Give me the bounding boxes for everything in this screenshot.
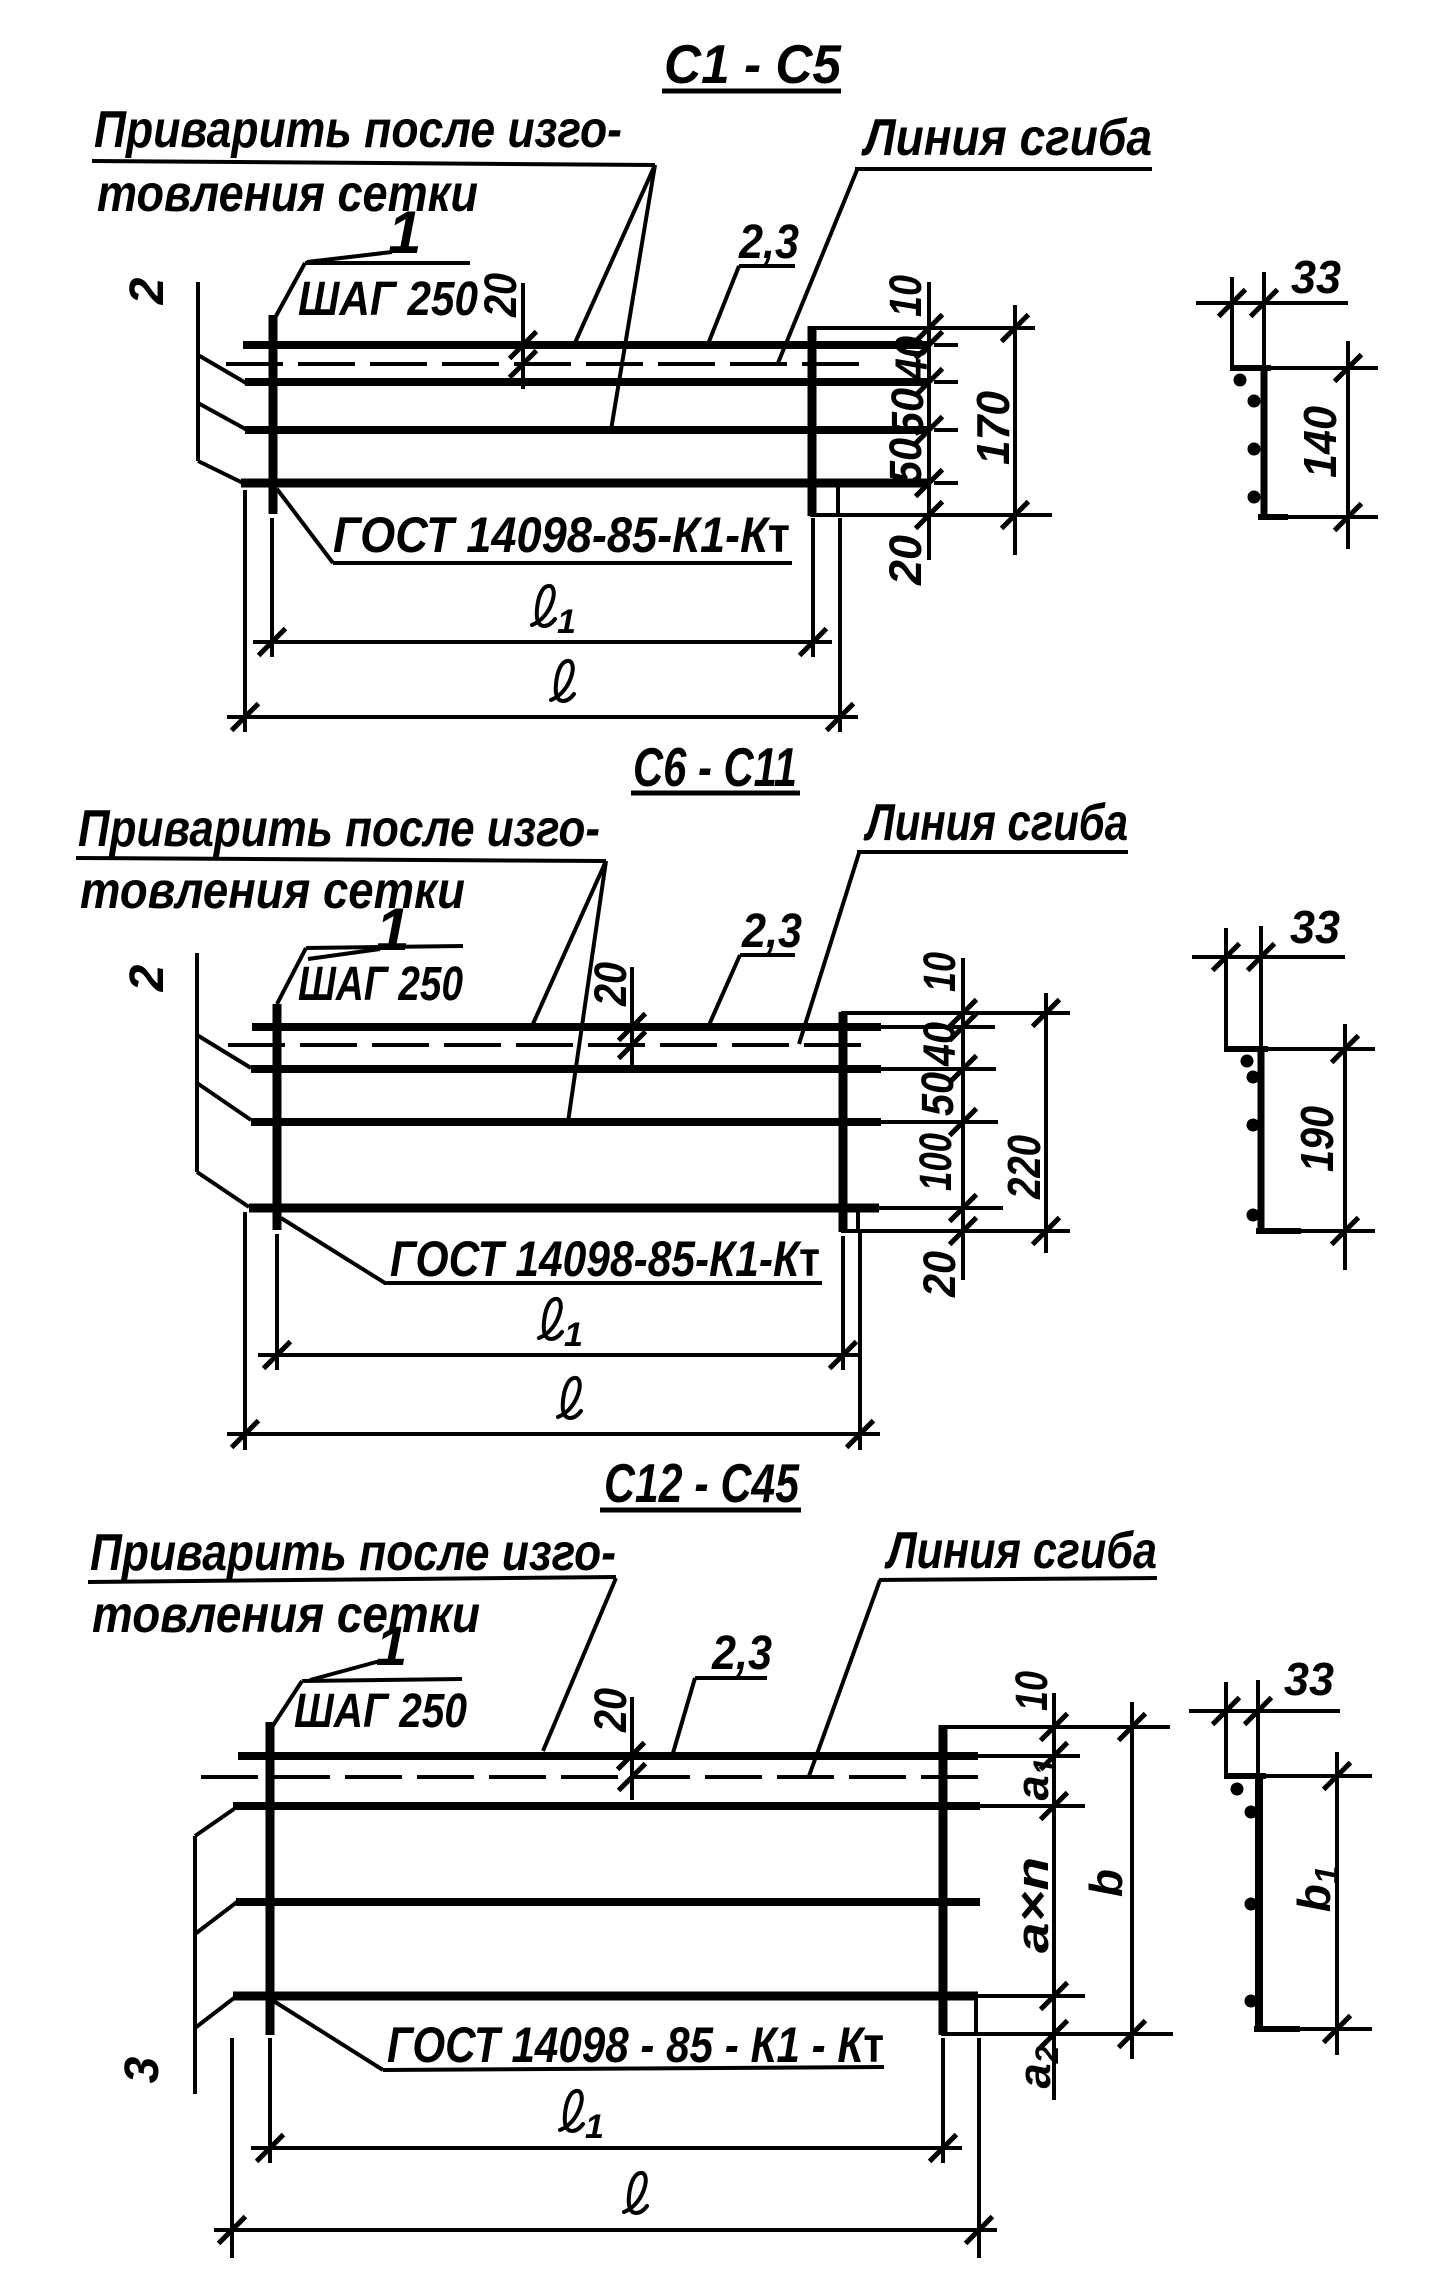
break step bar2	[195, 1809, 234, 1836]
dim l1 line	[253, 640, 832, 644]
svg-text:10: 10	[1006, 1671, 1057, 1711]
svg-text:33: 33	[1291, 251, 1341, 303]
svg-text:С6 - С11: С6 - С11	[633, 736, 797, 798]
dim l1 extension left	[270, 518, 274, 657]
side ext b	[1259, 926, 1263, 1053]
flap top edge	[841, 1011, 1070, 1015]
leader bend line	[778, 170, 857, 363]
dim a1	[1007, 1758, 1063, 1801]
dim l extension left	[243, 490, 247, 732]
callout top	[306, 946, 463, 948]
svg-text:3: 3	[116, 2056, 169, 2083]
svg-text:Линия сгиба: Линия сгиба	[884, 1522, 1157, 1580]
svg-text:40: 40	[914, 1022, 965, 1067]
dim l1 ext right	[841, 1236, 845, 1370]
side bar dot 1	[1231, 1783, 1244, 1796]
leader from note to bar 3	[611, 165, 655, 430]
side dim b1 line	[1335, 1752, 1339, 2055]
cross bar right	[808, 326, 817, 516]
svg-text:1: 1	[564, 1316, 583, 1354]
leader 2,3	[673, 1678, 695, 1753]
svg-text:ГОСТ 14098-85-К1-Кт: ГОСТ 14098-85-К1-Кт	[390, 1231, 820, 1287]
side profile vertical	[1258, 1049, 1265, 1231]
right dim stack line	[961, 958, 965, 1280]
bend line	[201, 1775, 985, 1779]
svg-text:2,3: 2,3	[741, 905, 802, 958]
dim l1 line	[258, 1353, 862, 1357]
side bar dot 4	[1245, 1995, 1258, 2008]
bar 4	[241, 479, 928, 488]
svg-text:1: 1	[376, 1614, 407, 1677]
svg-text:40: 40	[886, 336, 937, 381]
svg-text:товления сетки: товления сетки	[92, 1586, 480, 1644]
side profile top ext	[1266, 1774, 1372, 1778]
leader to bar 3	[568, 861, 606, 1122]
break step to bar 2	[198, 355, 246, 383]
bar 2	[251, 1065, 881, 1073]
side bar dot 2	[1247, 1071, 1260, 1084]
bend line (dashed)	[226, 362, 871, 366]
dim l line	[214, 2228, 997, 2232]
side profile foot ext	[1300, 2027, 1372, 2031]
right dim stack line	[927, 282, 931, 560]
side profile foot	[1258, 514, 1288, 520]
break line vertical	[193, 1836, 197, 2094]
bar 3	[251, 1118, 881, 1126]
cross bar right	[839, 1012, 848, 1232]
dim 220 line	[1044, 993, 1048, 1253]
callout ШАГ 250 top line	[305, 261, 470, 265]
svg-text:50: 50	[882, 388, 933, 436]
side bar dot 1	[1241, 1055, 1254, 1068]
side dim b1 label	[1288, 1866, 1345, 1912]
leader bend line	[809, 1580, 880, 1776]
callout slant	[277, 948, 306, 1004]
dim l1 label	[539, 1299, 583, 1354]
callout ШАГ 250 slant edge	[276, 263, 305, 316]
side profile foot	[1256, 1228, 1301, 1234]
svg-text:ШАГ 250: ШАГ 250	[298, 273, 478, 326]
leader 2,3	[709, 955, 740, 1025]
svg-text:Приварить после изго-: Приварить после изго-	[78, 800, 600, 858]
break line vertical	[195, 953, 199, 1172]
svg-text:b: b	[1080, 1869, 1132, 1897]
svg-text:С1 - С5: С1 - С5	[664, 33, 842, 95]
side profile top flap	[1224, 1773, 1266, 1779]
dim l1 label	[532, 586, 576, 641]
svg-text:С12 - С45: С12 - С45	[604, 1452, 800, 1514]
side profile top ext	[1268, 1047, 1375, 1051]
flap corner edge	[974, 1996, 978, 2034]
leader 2,3 to bar 1	[708, 266, 739, 344]
svg-text:ШАГ 250: ШАГ 250	[294, 1685, 467, 1738]
bar 2	[233, 1802, 980, 1810]
side dim 33 line	[1192, 955, 1345, 959]
leader to bar 1	[532, 861, 606, 1026]
side profile top flap	[1230, 365, 1271, 371]
side profile foot ext	[1288, 515, 1378, 519]
cross bar left	[273, 1004, 282, 1230]
svg-text:220: 220	[998, 1135, 1050, 1200]
svg-text:33: 33	[1284, 1653, 1334, 1705]
dim l1 ext left	[275, 1234, 279, 1370]
side bar dot 4	[1248, 491, 1261, 504]
leader to bar 1	[543, 1578, 616, 1751]
flap top edge	[941, 1725, 1170, 1729]
side bar dot 4	[1247, 1209, 1260, 1222]
note underline	[88, 1577, 616, 1582]
break step bar4	[197, 1172, 249, 1207]
weld mark leader	[281, 1218, 385, 1283]
dim a2	[1009, 2045, 1065, 2088]
leader from note to bar 1	[574, 165, 655, 345]
break step to bar 3	[198, 403, 249, 431]
bend line	[228, 1043, 870, 1047]
dim l1 extension right	[811, 518, 815, 657]
dim 170 line	[1013, 305, 1017, 555]
dim b line	[1130, 1702, 1134, 2059]
dim 20 line	[630, 967, 634, 1068]
svg-text:10: 10	[880, 275, 931, 317]
side profile foot ext	[1301, 1229, 1375, 1233]
break step bar4	[195, 1998, 234, 2028]
side dim 190 line	[1343, 1024, 1347, 1270]
leader for label 1	[307, 252, 392, 262]
right dim stack line	[1052, 1693, 1056, 2100]
svg-text:2: 2	[121, 277, 174, 305]
note underline	[76, 858, 606, 861]
callout top	[302, 1679, 462, 1681]
break step bar3	[195, 1902, 237, 1934]
dim l ext right	[977, 2038, 981, 2258]
cross bar left	[269, 315, 278, 514]
leader label 1	[308, 949, 380, 959]
svg-text:ГОСТ 14098 - 85 - К1 - Кт: ГОСТ 14098 - 85 - К1 - Кт	[387, 2017, 884, 2073]
side dim 33 line	[1196, 301, 1348, 305]
callout slant	[272, 1681, 302, 1727]
flap bottom edge	[941, 2032, 1173, 2036]
side bar dot 1	[1234, 374, 1247, 387]
bar 1 (longitudinal wire)	[243, 341, 928, 349]
side bar dot 2	[1248, 395, 1261, 408]
svg-text:140: 140	[1294, 406, 1346, 478]
svg-text:20: 20	[880, 535, 931, 586]
dim l label	[551, 661, 574, 701]
bar 2	[245, 378, 928, 386]
side ext a	[1224, 928, 1228, 1047]
note underline / leader shelf	[92, 161, 655, 165]
svg-text:100: 100	[910, 1133, 961, 1191]
dim l line	[227, 1432, 880, 1436]
svg-text:20: 20	[585, 962, 636, 1007]
side ext a	[1224, 1682, 1228, 1777]
bar 3	[236, 1898, 980, 1906]
side ext b	[1262, 272, 1266, 372]
svg-text:a×n: a×n	[1007, 1857, 1058, 1953]
svg-text:2,3: 2,3	[711, 1627, 772, 1680]
bar 1	[252, 1023, 881, 1031]
dim l ext right	[858, 1233, 862, 1450]
break step bar3	[197, 1083, 251, 1120]
dim l1 label	[560, 2091, 604, 2146]
side ext a	[1230, 277, 1234, 368]
svg-text:170: 170	[967, 391, 1019, 465]
dim l ext left	[230, 2038, 234, 2258]
side profile vertical	[1261, 368, 1268, 517]
weld mark leader	[272, 2000, 383, 2070]
svg-text:20: 20	[475, 273, 526, 318]
dim 20 line	[630, 1697, 634, 1800]
svg-text:Приварить после изго-: Приварить после изго-	[94, 101, 622, 159]
break step bar2	[197, 1035, 251, 1068]
bar 3	[245, 426, 928, 434]
dim l1 ext left	[268, 2038, 272, 2163]
side bar dot 2	[1245, 1806, 1258, 1819]
svg-text:ШАГ 250: ШАГ 250	[298, 958, 463, 1011]
side profile foot	[1254, 2026, 1300, 2032]
cross bar right	[939, 1725, 948, 2035]
svg-text:Приварить после изго-: Приварить после изго-	[90, 1524, 616, 1582]
break line vertical	[196, 282, 200, 461]
flap bottom edge	[841, 1229, 1070, 1233]
svg-text:1: 1	[557, 603, 576, 641]
dim l1 line	[251, 2146, 962, 2150]
svg-text:50: 50	[912, 1072, 963, 1116]
side profile vertical	[1255, 1776, 1263, 2031]
flap corner edge	[836, 487, 840, 515]
bar 4	[233, 1992, 978, 2001]
bar 4	[249, 1204, 879, 1213]
side ext b	[1256, 1680, 1260, 1782]
svg-text:20: 20	[914, 1251, 965, 1298]
dim l label	[558, 1378, 581, 1418]
dim l extension right	[838, 518, 842, 732]
flap top edge	[810, 326, 1035, 330]
cross bar left	[266, 1722, 275, 2035]
side dim 140 line	[1346, 341, 1350, 549]
svg-text:2: 2	[121, 964, 174, 992]
svg-text:1: 1	[388, 199, 421, 266]
side bar dot 3	[1245, 1898, 1258, 1911]
side profile top ext	[1271, 366, 1378, 370]
dim l ext left	[243, 1212, 247, 1450]
svg-text:ГОСТ 14098-85-К1-Кт: ГОСТ 14098-85-К1-Кт	[333, 507, 790, 563]
svg-text:1: 1	[585, 2108, 604, 2146]
svg-text:1: 1	[376, 896, 409, 963]
side dim 33 line	[1189, 1709, 1340, 1713]
svg-text:Линия сгиба: Линия сгиба	[860, 109, 1152, 167]
side profile top flap	[1224, 1046, 1268, 1052]
leader label 1	[310, 1661, 380, 1680]
side bar dot 3	[1248, 443, 1261, 456]
bar 1	[238, 1752, 978, 1760]
flap corner edge	[856, 1212, 860, 1231]
dim l label	[624, 2173, 647, 2213]
dim l line	[227, 715, 858, 719]
dim 20 line	[521, 283, 525, 389]
side bar dot 3	[1247, 1119, 1260, 1132]
svg-text:190: 190	[1291, 1106, 1343, 1172]
svg-text:50: 50	[880, 438, 931, 484]
weld mark leader	[277, 489, 333, 563]
svg-text:2,3: 2,3	[738, 216, 799, 269]
svg-text:Линия сгиба: Линия сгиба	[863, 794, 1128, 852]
svg-text:33: 33	[1290, 901, 1340, 953]
flap bottom edge	[810, 513, 1052, 517]
leader bend line	[799, 853, 859, 1044]
svg-text:10: 10	[914, 952, 965, 992]
dim l1 ext right	[941, 2038, 945, 2163]
break step to bar 4	[198, 461, 243, 483]
svg-text:20: 20	[585, 1688, 636, 1733]
